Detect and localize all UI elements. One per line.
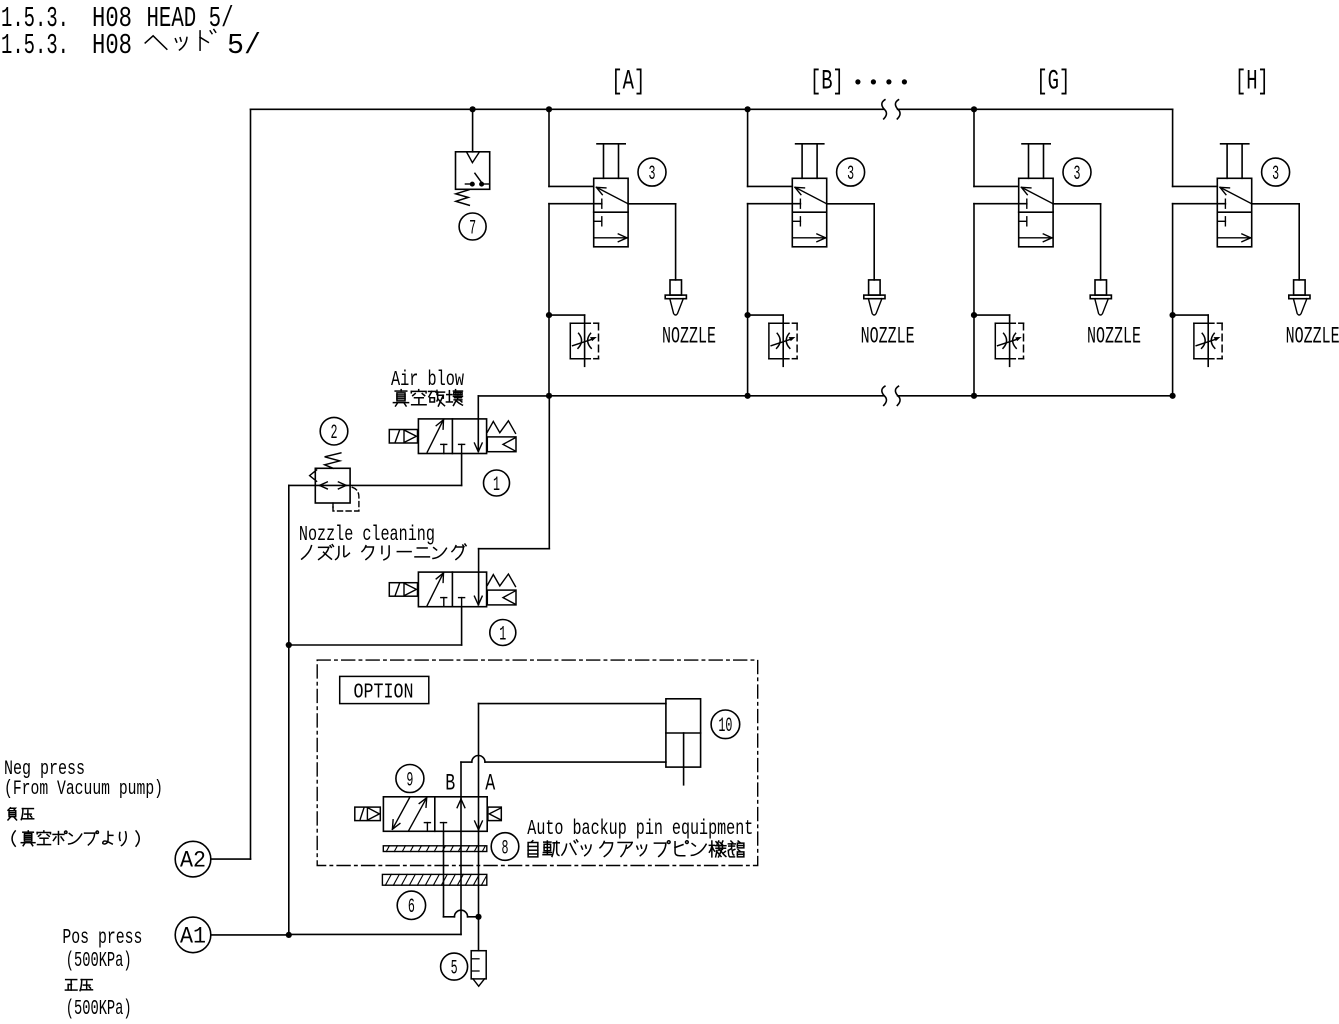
svg-text:(500KPa): (500KPa) xyxy=(66,950,132,973)
plate 8 (backup pin plate) xyxy=(383,846,487,852)
svg-text:1: 1 xyxy=(493,474,500,497)
wire regulator through-line xyxy=(289,484,462,486)
valve 3 head valve column B xyxy=(792,178,826,247)
circle label 7 xyxy=(459,213,486,240)
wire A1 supply line xyxy=(211,934,289,936)
svg-text:3: 3 xyxy=(1074,163,1081,186)
valve 3 head valve column G xyxy=(1019,178,1053,247)
wire port B to cylinder (with crossover) xyxy=(460,762,462,797)
svg-text:6: 6 xyxy=(408,896,415,919)
svg-text:9: 9 xyxy=(406,769,413,792)
regulator 2 body xyxy=(315,468,350,503)
svg-text:1.5.3.: 1.5.3. xyxy=(1,29,69,62)
svg-text:HEAD 5/: HEAD 5/ xyxy=(147,2,234,35)
circle label 1 (nozzle cleaning) xyxy=(490,620,516,646)
wire valve-to-nozzle column B xyxy=(827,203,875,205)
wire air blow output to lower bus xyxy=(477,396,479,451)
wire branch to vacuum switch 7 xyxy=(470,106,476,112)
regulator relief triangle xyxy=(310,470,317,481)
valve 1 nozzle cleaning solenoid valve xyxy=(418,572,486,607)
dots after [B] header xyxy=(855,79,860,84)
valve 9 B up-arrow xyxy=(461,799,465,808)
regulator 2 spring xyxy=(325,453,341,468)
valve 9 solenoid coil xyxy=(355,807,381,821)
nozzle symbol column A xyxy=(670,280,682,295)
wire A2 to riser xyxy=(211,858,251,860)
svg-text:NOZZLE: NOZZLE xyxy=(1286,324,1339,350)
wire top vacuum bus xyxy=(251,108,884,110)
svg-text:H08: H08 xyxy=(92,29,132,62)
solenoid coil xyxy=(389,583,417,597)
svg-text:[G]: [G] xyxy=(1036,67,1070,98)
solenoid coil xyxy=(389,430,417,444)
svg-text:2: 2 xyxy=(331,422,338,445)
wire air blow supply stem xyxy=(461,454,463,486)
svg-text:A1: A1 xyxy=(180,923,206,949)
flow control (speed controller) column A xyxy=(546,312,552,318)
svg-text:Air blow: Air blow xyxy=(391,369,464,392)
svg-text:A2: A2 xyxy=(180,848,206,874)
svg-text:3: 3 xyxy=(649,163,656,186)
wire B supply riser from A1 xyxy=(460,797,462,935)
label Nozzle cleaning Japanese xyxy=(302,546,312,559)
svg-text:(From Vacuum pump): (From Vacuum pump) xyxy=(4,778,163,801)
regulator feedback dashed line xyxy=(332,503,334,508)
svg-text:(500KPa): (500KPa) xyxy=(66,998,132,1019)
svg-text:5: 5 xyxy=(451,957,458,980)
valve 1 air blow solenoid valve xyxy=(418,419,486,454)
plate 6 (board) xyxy=(382,874,486,885)
valve 9 blocked ports xyxy=(424,822,430,824)
node junction exhaust/A-line xyxy=(475,914,481,920)
node lower bus junction column B xyxy=(745,393,751,399)
pilot box with triangle xyxy=(487,437,516,452)
svg-text:A: A xyxy=(485,770,495,796)
circle label 3 column H xyxy=(1262,158,1290,186)
nozzle symbol column G xyxy=(1095,280,1107,295)
flow arrow (open position) xyxy=(427,574,443,605)
node head column B riser xyxy=(745,106,751,112)
valve 9 crossed flow arrows xyxy=(393,797,410,828)
nozzle symbol column B xyxy=(869,280,881,295)
wire valve9 exhaust stem xyxy=(443,831,445,917)
circle label 3 column B xyxy=(837,158,865,186)
break mark on top bus xyxy=(882,100,887,119)
wire valve-to-nozzle column H xyxy=(1252,203,1300,205)
circle label 1 (air blow) xyxy=(484,470,510,496)
circle label 3 column A xyxy=(638,158,666,186)
circle label 8 xyxy=(491,833,519,861)
cylinder 10 backup pin cylinder xyxy=(666,699,701,767)
flow control (speed controller) column B xyxy=(745,312,751,318)
svg-text:Auto backup pin equipment: Auto backup pin equipment xyxy=(527,818,753,841)
port A2 circle xyxy=(175,841,211,877)
svg-text:OPTION: OPTION xyxy=(354,681,414,704)
wire port A to cylinder xyxy=(478,704,480,832)
spring of switch 7 xyxy=(456,190,470,206)
down flow arrow (closed position) xyxy=(474,443,478,452)
OPTION dashed boundary box xyxy=(317,660,758,865)
svg-text:7: 7 xyxy=(469,217,476,240)
node lower bus junction column G xyxy=(971,393,977,399)
circle label 9 xyxy=(396,765,424,793)
wire A2 riser xyxy=(250,109,252,859)
svg-text:NOZZLE: NOZZLE xyxy=(861,324,915,350)
wire nozzle cleaning output to neg-press line xyxy=(461,607,463,645)
circle label 5 xyxy=(441,953,468,980)
svg-text:3: 3 xyxy=(1272,163,1279,186)
node junction neg-press/cleaning xyxy=(286,642,292,648)
break mark on lower bus xyxy=(882,386,887,405)
OPTION label box xyxy=(340,676,429,703)
valve 3 head valve column H xyxy=(1217,178,1251,247)
valve 9 pilot box xyxy=(488,807,501,821)
valve 3 head valve column A xyxy=(594,178,628,247)
svg-text:8: 8 xyxy=(502,837,509,860)
return spring xyxy=(487,574,515,587)
svg-text:[A]: [A] xyxy=(611,67,645,98)
nozzle symbol column H xyxy=(1294,280,1306,295)
blocked port T marks xyxy=(441,597,447,599)
node head column H riser xyxy=(1172,109,1174,186)
node lower bus junction column A xyxy=(546,393,552,399)
node head column G riser xyxy=(971,106,977,112)
silencer 5 xyxy=(471,951,486,979)
node junction A1/neg-press riser xyxy=(286,932,292,938)
svg-text:B: B xyxy=(445,770,455,796)
circle label 3 column G xyxy=(1063,158,1091,186)
blocked port T marks xyxy=(441,443,447,445)
return spring xyxy=(487,421,515,434)
svg-text:[H]: [H] xyxy=(1235,67,1269,98)
svg-text:[B]: [B] xyxy=(810,67,844,98)
flow arrow (open position) xyxy=(427,421,443,452)
circle label 2 xyxy=(320,417,348,445)
wire lower air-blow bus xyxy=(549,395,883,397)
label Auto backup pin equipment Japanese xyxy=(528,841,538,857)
label Neg press Japanese xyxy=(8,808,17,820)
label Pos press Japanese xyxy=(65,980,77,990)
node head column A riser xyxy=(546,106,552,112)
pilot box with triangle xyxy=(487,590,516,605)
svg-text:5/: 5/ xyxy=(227,29,261,62)
wire valve-to-nozzle column A xyxy=(628,203,676,205)
down flow arrow (closed position) xyxy=(474,596,478,605)
svg-text:10: 10 xyxy=(718,715,732,738)
flow control (speed controller) column G xyxy=(971,312,977,318)
wire neg-press vertical (regulator to A1 line) xyxy=(288,485,290,935)
flow control (speed controller) column H xyxy=(1170,312,1176,318)
valve 9 backup pin solenoid valve xyxy=(383,797,487,832)
wire nozzle cleaning feed from lower bus xyxy=(548,396,550,549)
label Air blow Japanese xyxy=(393,390,408,406)
svg-text:Nozzle cleaning: Nozzle cleaning xyxy=(299,524,435,547)
svg-text:NOZZLE: NOZZLE xyxy=(662,324,716,350)
port A1 circle xyxy=(175,917,211,953)
circle label 10 xyxy=(711,710,740,739)
svg-text:3: 3 xyxy=(847,163,854,186)
svg-text:1: 1 xyxy=(499,623,506,646)
svg-text:Pos press: Pos press xyxy=(62,927,142,950)
svg-text:NOZZLE: NOZZLE xyxy=(1087,324,1141,350)
circle label 6 xyxy=(397,891,425,919)
wire A-line down to silencer xyxy=(478,831,480,950)
node lower bus junction column H xyxy=(1170,393,1176,399)
vacuum switch 7 xyxy=(456,152,490,190)
valve 9 A down-arrow xyxy=(475,821,479,830)
wire valve-to-nozzle column G xyxy=(1053,203,1101,205)
